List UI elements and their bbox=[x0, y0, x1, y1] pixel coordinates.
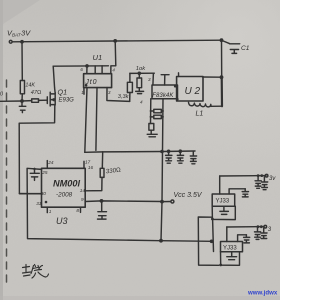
svg-text:Jt0: Jt0 bbox=[84, 79, 97, 86]
resistor Rp1 horizontal bbox=[154, 109, 162, 113]
fold dashed line bbox=[6, 80, 8, 282]
wire U1 pin3 lead bbox=[107, 88, 130, 102]
wire to left edge bbox=[0, 100, 22, 102]
svg-text:Q1: Q1 bbox=[58, 88, 68, 97]
svg-text:www.jdwx: www.jdwx bbox=[247, 289, 278, 296]
capacitor on pin25 wire bbox=[30, 169, 39, 181]
wire U1 pin2b riser bbox=[96, 88, 97, 151]
svg-text:47Ω: 47Ω bbox=[31, 90, 42, 96]
capacitor YJ1 b bbox=[262, 177, 268, 190]
chip YJ33 first box bbox=[212, 194, 235, 206]
wire pin8 stub bbox=[80, 207, 82, 212]
wire inter-block vertical bbox=[212, 219, 215, 251]
wire L1 right to riser bbox=[211, 105, 222, 107]
wire pin4 jog riser bbox=[111, 41, 116, 74]
junction top rail dot bbox=[220, 38, 224, 42]
resistor R 47ohm bbox=[32, 99, 39, 102]
resistor R 10k bbox=[138, 73, 140, 78]
handwritten note (Chinese) bbox=[23, 265, 49, 279]
wire VBAT rail bbox=[12, 40, 221, 42]
pin1 dot U1 bbox=[85, 84, 88, 87]
resistor R below left rail bbox=[149, 124, 154, 131]
svg-text:8: 8 bbox=[76, 208, 79, 213]
junction rail-riser dot bbox=[113, 39, 117, 43]
wire mid rail y=151.5 bbox=[85, 151, 195, 152]
wire pin1 stub bbox=[46, 207, 48, 212]
capacitor YJ1 c bbox=[242, 189, 248, 197]
node YJ1 terminal bbox=[265, 174, 268, 177]
wire YJ1 left drop bbox=[219, 176, 221, 194]
wire U1 pin1 stub bbox=[83, 88, 85, 95]
junction dots row2 bbox=[150, 116, 152, 118]
inductor L1 bbox=[189, 102, 212, 107]
pin dot U2 a bbox=[174, 85, 177, 88]
junction gate node dot bbox=[20, 99, 24, 103]
svg-text:16: 16 bbox=[88, 165, 94, 170]
wire YJ2 second pin to cap bbox=[238, 235, 247, 242]
node Vcc terminal bbox=[171, 200, 174, 203]
ground under 10k bbox=[136, 91, 144, 93]
capacitor gnd 1 bbox=[166, 151, 172, 163]
svg-text:YJ33: YJ33 bbox=[223, 246, 237, 252]
node YJ2 terminal bbox=[264, 225, 267, 228]
pin dot U2 b bbox=[176, 98, 179, 101]
wire pin stub mid b bbox=[101, 66, 103, 74]
wire vcc riser down bbox=[161, 152, 163, 241]
capacitor YJ2 c bbox=[244, 235, 250, 243]
capacitor at gate node bbox=[19, 101, 26, 113]
op-amp U3 box bbox=[42, 168, 86, 207]
svg-text:U1: U1 bbox=[93, 53, 103, 62]
transistor Q1 bbox=[46, 97, 48, 104]
svg-text:NM00l: NM00l bbox=[53, 179, 81, 189]
wire pin25 to bottom rail bbox=[27, 168, 161, 240]
junction pin9 cap dot bbox=[100, 199, 104, 203]
capacitor YJ1 a bbox=[255, 176, 261, 189]
wire bottom rail right bbox=[161, 240, 212, 243]
resistor R 14K bbox=[20, 81, 24, 94]
wire YJ2 top bbox=[227, 226, 263, 228]
svg-text:24: 24 bbox=[47, 160, 54, 165]
wire F83 right rail bbox=[162, 99, 165, 152]
wire U1 top net y=66 bbox=[53, 65, 108, 67]
op-amp U1 box bbox=[84, 74, 112, 88]
wire 47R left lead bbox=[22, 100, 32, 102]
wire YJ1 second pin to cap bbox=[229, 189, 245, 194]
junction 10k dot bbox=[138, 72, 142, 76]
capacitor gnd 3 bbox=[190, 152, 196, 164]
wire Q1 source down-left to U3 pin30 riser bbox=[19, 105, 55, 194]
junction U2 rail dot bbox=[220, 75, 224, 79]
svg-text:C1: C1 bbox=[241, 45, 250, 52]
svg-text:30: 30 bbox=[41, 191, 47, 197]
svg-text:17: 17 bbox=[85, 159, 91, 164]
svg-text:F83k4K: F83k4K bbox=[152, 93, 174, 99]
junction Vcc dot bbox=[160, 200, 164, 204]
op-amp U2 box bbox=[177, 77, 203, 102]
wire 14K top lead bbox=[21, 42, 23, 81]
wire pin30 lead bbox=[19, 193, 41, 195]
wire junction bar y=73.3 bbox=[130, 72, 154, 74]
antenna T above F83 bbox=[161, 75, 169, 85]
wire YJ2 left drop bbox=[226, 227, 228, 242]
wire 14K bottom lead bbox=[21, 94, 23, 101]
svg-text:U 2: U 2 bbox=[185, 86, 201, 97]
junction YJ1 bracket dot bbox=[211, 218, 214, 221]
wire U1 pin2 riser bbox=[85, 88, 87, 153]
svg-text:L1: L1 bbox=[196, 111, 204, 118]
bracket below YJ1 bbox=[212, 206, 235, 219]
junction YJ2 dots bbox=[257, 225, 260, 228]
capacitor gnd 2 bbox=[177, 151, 183, 163]
svg-text:14: 14 bbox=[80, 188, 86, 193]
svg-text:14K: 14K bbox=[25, 83, 35, 89]
svg-text:YJ33: YJ33 bbox=[216, 199, 230, 205]
svg-text:3: 3 bbox=[148, 77, 151, 82]
svg-text:9: 9 bbox=[81, 197, 84, 202]
wire F83 left rail bbox=[150, 99, 152, 124]
junction bottom rail end dot bbox=[210, 240, 214, 244]
junction bottom rail dot bbox=[159, 239, 163, 243]
node VBAT terminal bbox=[9, 40, 12, 43]
junction dots row1 bbox=[150, 110, 152, 112]
wire U2 corner stub bbox=[178, 73, 180, 77]
svg-text:E93G: E93G bbox=[59, 98, 75, 104]
ground inside YJ1 bbox=[220, 206, 229, 214]
chip YJ33 second box bbox=[221, 242, 243, 252]
wire pin24 stub bbox=[46, 161, 48, 169]
wire 47R to gate bbox=[39, 99, 48, 101]
svg-text:4: 4 bbox=[140, 100, 143, 105]
capacitor YJ2 b bbox=[261, 228, 267, 239]
wire to F83 pin3 bbox=[152, 73, 155, 85]
resistor Rp2 horizontal bbox=[154, 115, 162, 118]
pin1 dot inside U3 bbox=[45, 201, 48, 204]
wire pin9 to vcc node bbox=[85, 200, 162, 203]
wire YJ1 top bbox=[220, 175, 266, 177]
junction YJ1 dots bbox=[257, 174, 260, 177]
svg-text:25: 25 bbox=[41, 170, 48, 175]
junction rail dots bbox=[160, 150, 164, 154]
svg-text:U3: U3 bbox=[56, 216, 68, 226]
wire Q1 drain riser bbox=[53, 66, 55, 93]
wire pin stub mid a bbox=[94, 66, 96, 74]
svg-text:-2008: -2008 bbox=[56, 192, 73, 199]
ground below bbox=[147, 134, 157, 137]
wire right riser bbox=[221, 40, 223, 77]
wire 330R to pin14 bbox=[85, 177, 102, 190]
svg-text:3v: 3v bbox=[269, 176, 276, 182]
capacitor C1 bbox=[222, 41, 240, 54]
junction VBAT dot bbox=[20, 40, 24, 44]
chip F83k4K box bbox=[152, 85, 178, 99]
junction YJ2 bracket dot bbox=[219, 264, 222, 267]
resistor R 330 bbox=[100, 168, 104, 177]
svg-text:31: 31 bbox=[36, 201, 42, 206]
wire pin6 stub bbox=[86, 66, 88, 74]
ground inside YJ2 bbox=[227, 252, 237, 260]
wire U2 top to rail riser bbox=[203, 76, 222, 78]
svg-text:Vcc 3.5V: Vcc 3.5V bbox=[174, 192, 203, 199]
wire pin17 stub bbox=[83, 161, 85, 168]
svg-text:1ok: 1ok bbox=[136, 66, 146, 72]
junction pin6 dot bbox=[85, 64, 89, 68]
wire 330R riser bbox=[101, 152, 103, 168]
svg-text:3,3k: 3,3k bbox=[118, 94, 130, 100]
bracket below YJ2 bbox=[221, 252, 240, 266]
wire YJ1 bracket left link bbox=[198, 217, 219, 265]
resistor R 3.3k body bbox=[129, 93, 131, 102]
capacitor gnd at pin9 bbox=[98, 201, 107, 219]
capacitor YJ2 a bbox=[255, 227, 261, 240]
